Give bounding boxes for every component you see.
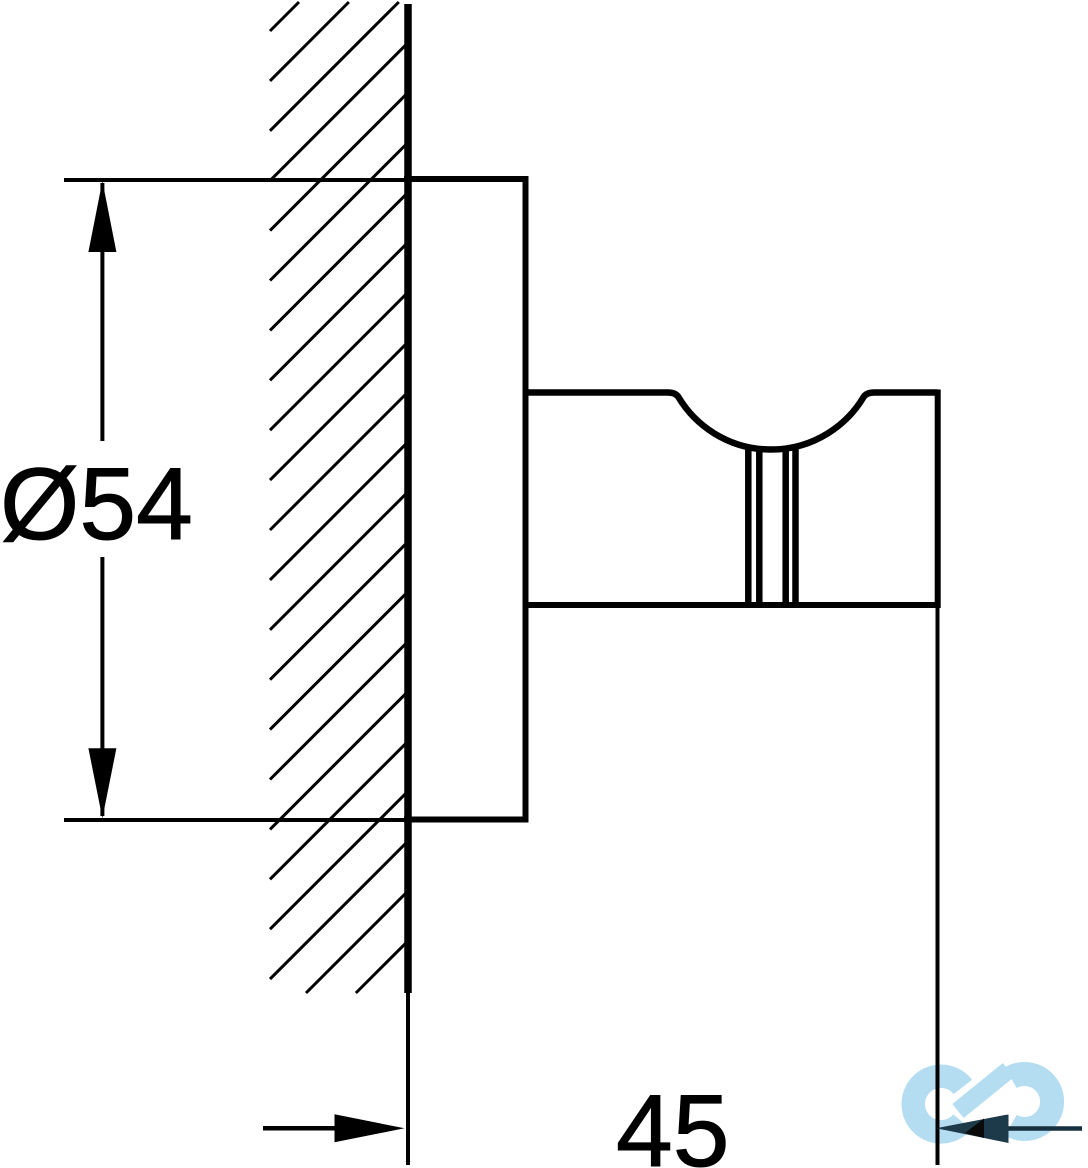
svg-text:45: 45: [616, 1074, 729, 1168]
svg-text:Ø54: Ø54: [0, 447, 193, 561]
